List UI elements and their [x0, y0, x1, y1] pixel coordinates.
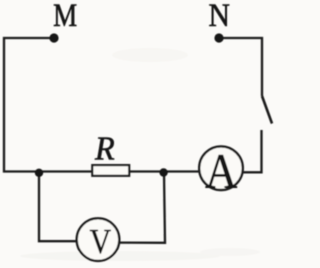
- svg-text:M: M: [53, 0, 77, 33]
- svg-text:A: A: [205, 145, 237, 200]
- svg-text:N: N: [208, 0, 229, 33]
- svg-text:R: R: [94, 130, 115, 168]
- svg-text:V: V: [90, 223, 112, 262]
